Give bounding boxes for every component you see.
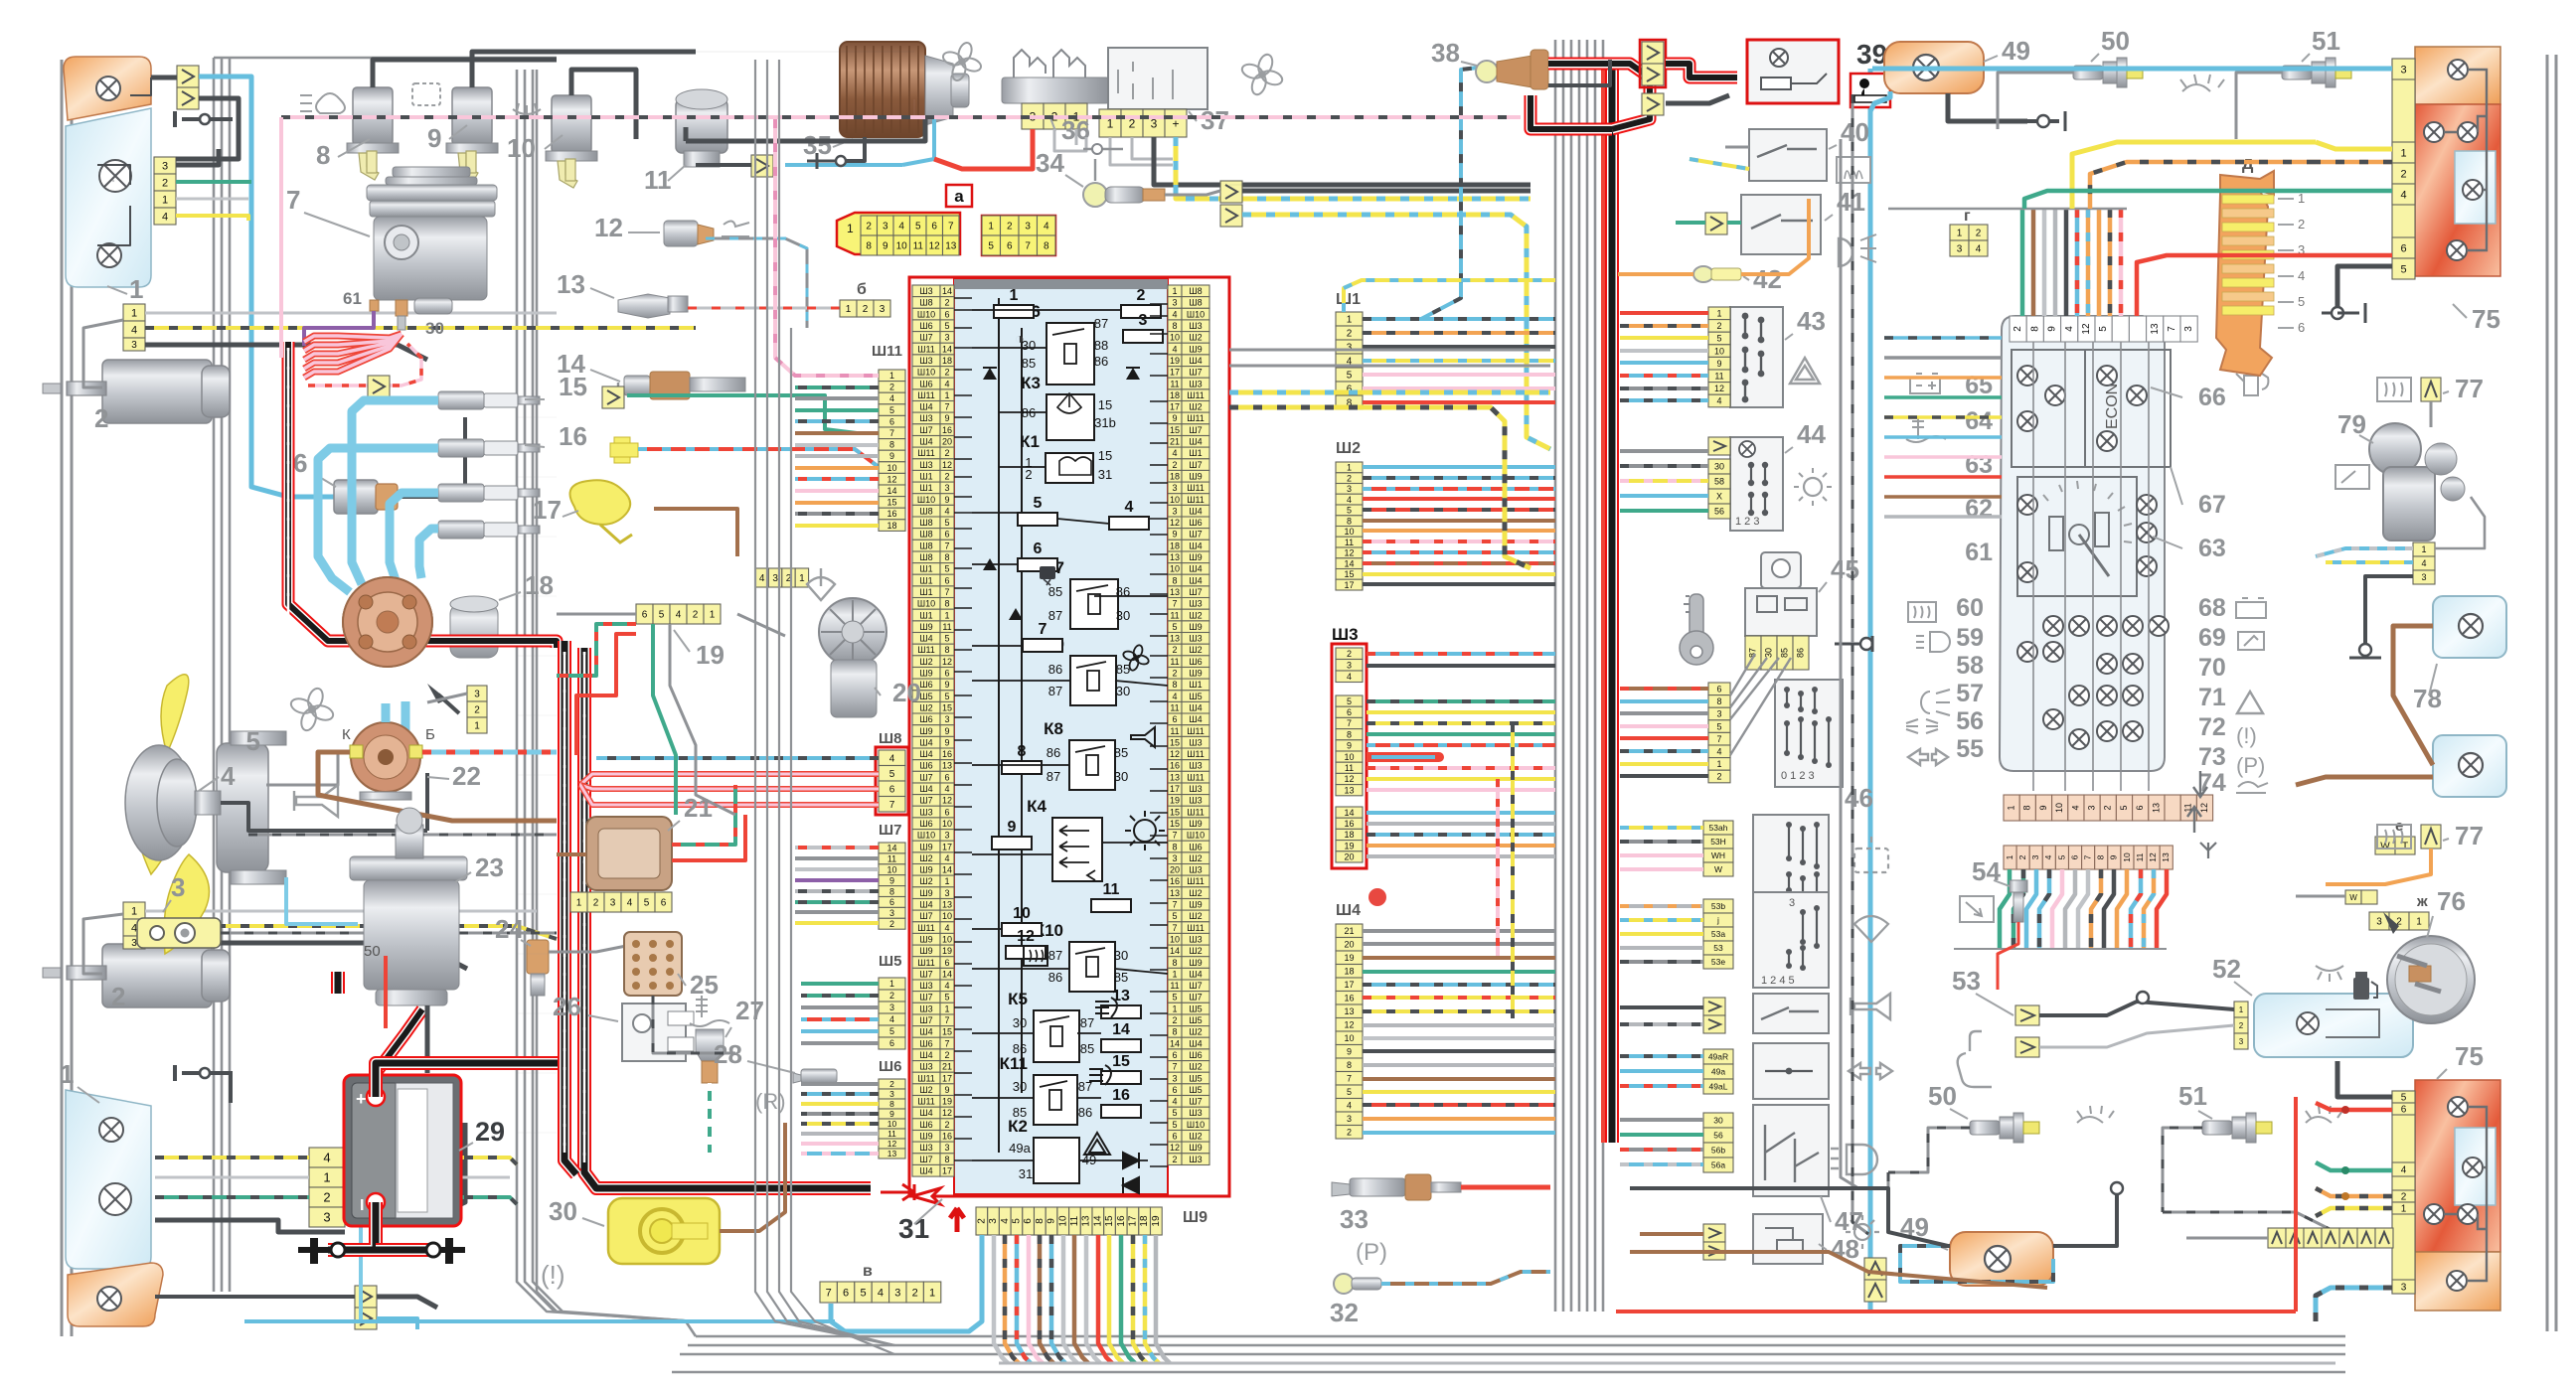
svg-text:3: 3 bbox=[944, 1143, 949, 1153]
svg-text:59: 59 bbox=[1956, 624, 1984, 652]
svg-text:15: 15 bbox=[1170, 737, 1180, 747]
svg-text:13: 13 bbox=[1344, 785, 1354, 795]
svg-text:1: 1 bbox=[2401, 1204, 2407, 1215]
svg-text:8: 8 bbox=[944, 599, 949, 609]
svg-text:23: 23 bbox=[475, 852, 504, 882]
svg-text:16: 16 bbox=[942, 1132, 952, 1142]
svg-text:87: 87 bbox=[1048, 684, 1062, 698]
svg-text:8: 8 bbox=[889, 440, 894, 450]
svg-text:85: 85 bbox=[1114, 745, 1128, 760]
svg-text:12: 12 bbox=[1017, 928, 1035, 945]
svg-text:4: 4 bbox=[2400, 190, 2406, 202]
svg-text:3: 3 bbox=[2401, 1283, 2407, 1294]
svg-text:87: 87 bbox=[1080, 1015, 1094, 1030]
svg-text:42: 42 bbox=[1753, 264, 1782, 294]
svg-text:ECON: ECON bbox=[2104, 384, 2121, 429]
svg-text:77: 77 bbox=[2455, 374, 2484, 403]
svg-text:21: 21 bbox=[942, 1062, 952, 1072]
svg-text:51: 51 bbox=[2178, 1081, 2207, 1111]
svg-text:15: 15 bbox=[1104, 1215, 1115, 1227]
svg-text:Ш9: Ш9 bbox=[919, 842, 932, 851]
svg-text:13: 13 bbox=[557, 269, 585, 299]
svg-text:1: 1 bbox=[1347, 315, 1353, 326]
svg-text:30: 30 bbox=[1013, 1079, 1027, 1094]
svg-text:52: 52 bbox=[2212, 954, 2241, 984]
svg-text:Ш4: Ш4 bbox=[919, 749, 932, 759]
svg-text:Ш7: Ш7 bbox=[919, 1015, 932, 1025]
svg-text:Ш3: Ш3 bbox=[1189, 761, 1202, 771]
svg-text:6: 6 bbox=[944, 309, 949, 319]
svg-text:18: 18 bbox=[1139, 1215, 1150, 1227]
svg-text:Ш7: Ш7 bbox=[919, 333, 932, 343]
svg-text:Ш9: Ш9 bbox=[1189, 552, 1202, 562]
svg-text:6: 6 bbox=[944, 575, 949, 585]
svg-text:1: 1 bbox=[474, 721, 480, 732]
svg-text:85: 85 bbox=[1779, 648, 1789, 658]
svg-text:9: 9 bbox=[1008, 819, 1017, 836]
svg-text:5: 5 bbox=[1172, 1108, 1177, 1118]
svg-text:53e: 53e bbox=[1711, 957, 1725, 967]
svg-text:Ш3: Ш3 bbox=[919, 807, 932, 817]
svg-text:Ш6: Ш6 bbox=[1189, 1050, 1202, 1060]
svg-text:2: 2 bbox=[889, 991, 894, 1001]
svg-text:1: 1 bbox=[944, 390, 949, 400]
svg-text:5: 5 bbox=[1716, 334, 1721, 344]
svg-text:16: 16 bbox=[559, 421, 587, 451]
svg-text:WH: WH bbox=[1711, 850, 1725, 860]
svg-text:2: 2 bbox=[1716, 321, 1721, 331]
svg-text:4: 4 bbox=[1347, 1101, 1352, 1111]
svg-text:13: 13 bbox=[887, 1149, 897, 1158]
svg-text:30: 30 bbox=[425, 319, 444, 338]
svg-text:8: 8 bbox=[1347, 516, 1352, 526]
svg-text:22: 22 bbox=[452, 761, 481, 791]
svg-text:7: 7 bbox=[1172, 599, 1177, 609]
svg-text:3: 3 bbox=[2421, 572, 2426, 582]
svg-text:10: 10 bbox=[1344, 527, 1354, 537]
svg-text:Ш2: Ш2 bbox=[919, 876, 932, 886]
svg-text:(P): (P) bbox=[2236, 753, 2265, 778]
svg-text:1: 1 bbox=[988, 222, 994, 232]
svg-text:Ш3: Ш3 bbox=[919, 460, 932, 470]
svg-text:3: 3 bbox=[1172, 853, 1177, 863]
svg-text:85: 85 bbox=[1116, 662, 1130, 677]
svg-text:К8: К8 bbox=[1044, 719, 1063, 738]
svg-text:0 1 2 3: 0 1 2 3 bbox=[1781, 770, 1815, 782]
svg-text:Ш9: Ш9 bbox=[919, 622, 932, 632]
svg-text:30: 30 bbox=[1116, 684, 1130, 698]
svg-text:51: 51 bbox=[2312, 26, 2340, 56]
svg-text:32: 32 bbox=[1330, 1298, 1359, 1327]
svg-text:Ш3: Ш3 bbox=[1189, 935, 1202, 945]
svg-text:Ш1: Ш1 bbox=[919, 483, 932, 493]
svg-text:Ш11: Ш11 bbox=[1187, 923, 1205, 933]
svg-text:14: 14 bbox=[1112, 1021, 1130, 1038]
svg-text:86: 86 bbox=[1795, 648, 1805, 658]
svg-text:11: 11 bbox=[942, 622, 951, 632]
svg-text:60: 60 bbox=[1956, 594, 1984, 622]
svg-text:1: 1 bbox=[889, 371, 894, 381]
svg-text:9: 9 bbox=[427, 123, 441, 153]
svg-text:12: 12 bbox=[886, 474, 896, 484]
svg-text:17: 17 bbox=[1170, 368, 1180, 378]
svg-text:Ш11: Ш11 bbox=[917, 923, 935, 933]
svg-text:19: 19 bbox=[1151, 1215, 1162, 1227]
svg-text:4: 4 bbox=[2070, 805, 2080, 810]
svg-text:21: 21 bbox=[1170, 437, 1180, 447]
svg-text:56a: 56a bbox=[1711, 1160, 1725, 1170]
svg-text:3: 3 bbox=[1957, 244, 1963, 255]
svg-text:16: 16 bbox=[942, 749, 952, 759]
svg-text:87: 87 bbox=[1048, 608, 1062, 623]
svg-text:8: 8 bbox=[2022, 805, 2032, 810]
svg-text:13: 13 bbox=[942, 761, 952, 771]
svg-text:Ш4: Ш4 bbox=[1189, 564, 1202, 574]
svg-text:8: 8 bbox=[316, 140, 330, 170]
svg-text:11: 11 bbox=[1170, 981, 1179, 991]
svg-text:56b: 56b bbox=[1711, 1146, 1725, 1156]
svg-text:3: 3 bbox=[131, 340, 137, 351]
svg-text:11: 11 bbox=[1345, 538, 1354, 547]
svg-text:6: 6 bbox=[889, 897, 894, 907]
svg-text:4: 4 bbox=[1716, 747, 1721, 757]
svg-text:11: 11 bbox=[1170, 379, 1179, 388]
svg-text:5: 5 bbox=[944, 518, 949, 528]
svg-text:Ш3: Ш3 bbox=[1189, 321, 1202, 331]
svg-text:Ш8: Ш8 bbox=[919, 552, 932, 562]
svg-text:53H: 53H bbox=[1710, 837, 1726, 847]
svg-text:6: 6 bbox=[1034, 540, 1043, 557]
svg-text:Ш4: Ш4 bbox=[919, 737, 932, 747]
svg-text:Ш2: Ш2 bbox=[919, 853, 932, 863]
svg-text:◑: ◑ bbox=[1015, 331, 1025, 348]
svg-text:3: 3 bbox=[2030, 854, 2040, 859]
svg-text:3: 3 bbox=[2376, 917, 2382, 928]
svg-text:9: 9 bbox=[883, 241, 888, 252]
svg-text:Ш10: Ш10 bbox=[1187, 831, 1205, 841]
svg-text:12: 12 bbox=[1170, 1143, 1180, 1153]
svg-text:Ш7: Ш7 bbox=[919, 772, 932, 782]
svg-text:11: 11 bbox=[1345, 763, 1354, 773]
svg-text:Ш6: Ш6 bbox=[919, 1120, 932, 1130]
svg-text:Ш3: Ш3 bbox=[1189, 1108, 1202, 1118]
svg-text:69: 69 bbox=[2198, 624, 2226, 652]
svg-text:18: 18 bbox=[1344, 830, 1354, 840]
svg-text:6: 6 bbox=[944, 669, 949, 679]
svg-text:5: 5 bbox=[915, 222, 921, 232]
svg-text:13: 13 bbox=[1170, 587, 1180, 597]
svg-text:14: 14 bbox=[942, 286, 952, 296]
svg-text:б: б bbox=[857, 281, 867, 298]
svg-text:4: 4 bbox=[676, 610, 682, 621]
svg-text:1: 1 bbox=[162, 195, 168, 207]
svg-text:Ш7: Ш7 bbox=[1189, 368, 1202, 378]
svg-text:85: 85 bbox=[1114, 970, 1128, 985]
svg-text:3: 3 bbox=[162, 161, 168, 173]
svg-text:7: 7 bbox=[286, 185, 300, 215]
svg-text:Ш3: Ш3 bbox=[919, 1003, 932, 1013]
svg-text:1: 1 bbox=[710, 610, 716, 621]
svg-text:15: 15 bbox=[886, 498, 896, 508]
svg-text:7: 7 bbox=[944, 402, 949, 412]
svg-text:16: 16 bbox=[1112, 1087, 1130, 1104]
svg-text:Ш11: Ш11 bbox=[872, 343, 902, 360]
svg-text:88: 88 bbox=[1094, 338, 1108, 353]
svg-text:Ш5: Ш5 bbox=[1189, 1015, 1202, 1025]
svg-text:8: 8 bbox=[1172, 680, 1177, 690]
svg-text:1: 1 bbox=[576, 898, 582, 909]
svg-text:2: 2 bbox=[323, 1190, 330, 1205]
svg-text:1: 1 bbox=[2005, 854, 2014, 859]
svg-text:6: 6 bbox=[1007, 241, 1013, 252]
svg-text:4: 4 bbox=[627, 898, 633, 909]
svg-text:5: 5 bbox=[1172, 622, 1177, 632]
svg-text:75: 75 bbox=[2455, 1041, 2484, 1071]
svg-text:1: 1 bbox=[799, 573, 805, 584]
svg-text:2: 2 bbox=[1137, 287, 1146, 304]
svg-text:9: 9 bbox=[944, 1085, 949, 1095]
svg-text:Ш8: Ш8 bbox=[919, 530, 932, 540]
svg-text:7: 7 bbox=[1025, 241, 1031, 252]
svg-text:Ш3: Ш3 bbox=[1189, 1155, 1202, 1164]
svg-text:18: 18 bbox=[942, 356, 952, 366]
svg-text:Ш9: Ш9 bbox=[919, 1132, 932, 1142]
svg-text:19: 19 bbox=[1344, 841, 1354, 850]
svg-text:64: 64 bbox=[1965, 407, 1993, 435]
svg-text:2: 2 bbox=[2400, 169, 2406, 181]
svg-text:49aL: 49aL bbox=[1709, 1082, 1728, 1092]
svg-text:18: 18 bbox=[1170, 540, 1180, 550]
svg-text:16: 16 bbox=[942, 425, 952, 435]
svg-text:2: 2 bbox=[944, 1050, 949, 1060]
svg-text:Ш11: Ш11 bbox=[1187, 807, 1205, 817]
svg-text:Ш3: Ш3 bbox=[1189, 796, 1202, 806]
svg-text:6: 6 bbox=[889, 416, 894, 426]
svg-text:Ш11: Ш11 bbox=[917, 390, 935, 400]
svg-text:Ш4: Ш4 bbox=[919, 784, 932, 794]
svg-text:85: 85 bbox=[1022, 356, 1036, 371]
svg-text:Ш9: Ш9 bbox=[919, 888, 932, 898]
svg-text:15: 15 bbox=[559, 372, 587, 401]
svg-text:Ш11: Ш11 bbox=[1187, 876, 1205, 886]
svg-text:6: 6 bbox=[1347, 707, 1352, 717]
svg-text:4: 4 bbox=[878, 1288, 884, 1300]
svg-text:7: 7 bbox=[1347, 718, 1352, 728]
svg-text:14: 14 bbox=[886, 486, 896, 496]
svg-text:67: 67 bbox=[2198, 491, 2226, 519]
svg-text:Ш9: Ш9 bbox=[1183, 1209, 1207, 1226]
svg-text:Ш7: Ш7 bbox=[1189, 993, 1202, 1003]
svg-text:10: 10 bbox=[1170, 495, 1180, 505]
svg-text:72: 72 bbox=[2198, 713, 2226, 741]
svg-text:11: 11 bbox=[913, 241, 924, 252]
svg-text:13: 13 bbox=[1081, 1215, 1092, 1227]
svg-text:Ш2: Ш2 bbox=[1189, 888, 1202, 898]
svg-text:7: 7 bbox=[826, 1288, 832, 1300]
svg-text:13: 13 bbox=[945, 241, 957, 252]
svg-text:9: 9 bbox=[944, 413, 949, 423]
svg-text:49a: 49a bbox=[1711, 1067, 1725, 1077]
svg-text:3: 3 bbox=[1172, 1073, 1177, 1083]
svg-text:25: 25 bbox=[690, 970, 719, 1000]
svg-text:Ш4: Ш4 bbox=[1189, 437, 1202, 447]
svg-text:6: 6 bbox=[931, 222, 937, 232]
svg-text:2: 2 bbox=[94, 403, 108, 433]
svg-text:26: 26 bbox=[553, 992, 581, 1021]
svg-text:4: 4 bbox=[1716, 396, 1721, 406]
svg-text:2: 2 bbox=[162, 178, 168, 190]
svg-text:10: 10 bbox=[942, 911, 952, 921]
svg-text:11: 11 bbox=[887, 854, 896, 864]
svg-text:Ш11: Ш11 bbox=[1187, 413, 1205, 423]
svg-text:2: 2 bbox=[944, 298, 949, 308]
svg-text:58: 58 bbox=[1714, 477, 1724, 487]
svg-text:Ш6: Ш6 bbox=[919, 761, 932, 771]
svg-text:1: 1 bbox=[1716, 759, 1721, 769]
svg-text:2: 2 bbox=[863, 304, 869, 315]
svg-text:а: а bbox=[954, 187, 964, 206]
svg-text:30: 30 bbox=[1114, 769, 1128, 784]
svg-text:8: 8 bbox=[944, 1155, 949, 1164]
svg-text:4: 4 bbox=[1172, 1097, 1177, 1107]
svg-text:7: 7 bbox=[944, 587, 949, 597]
svg-text:1: 1 bbox=[846, 304, 852, 315]
svg-text:6: 6 bbox=[1023, 1218, 1034, 1224]
svg-text:12: 12 bbox=[1170, 749, 1180, 759]
svg-text:Ш6: Ш6 bbox=[919, 1038, 932, 1048]
svg-text:Ш5: Ш5 bbox=[919, 692, 932, 701]
svg-text:6: 6 bbox=[661, 898, 667, 909]
svg-text:2: 2 bbox=[1172, 1015, 1177, 1025]
svg-text:4: 4 bbox=[2421, 558, 2426, 568]
svg-text:Ш6: Ш6 bbox=[919, 321, 932, 331]
svg-text:Ш3: Ш3 bbox=[1189, 865, 1202, 875]
svg-text:30: 30 bbox=[1763, 648, 1773, 658]
svg-text:10: 10 bbox=[1170, 935, 1180, 945]
svg-text:Ш11: Ш11 bbox=[917, 1073, 935, 1083]
svg-text:Ш11: Ш11 bbox=[917, 344, 935, 354]
svg-text:5: 5 bbox=[1347, 506, 1352, 516]
svg-text:Ш3: Ш3 bbox=[1189, 737, 1202, 747]
svg-text:8: 8 bbox=[1172, 321, 1177, 331]
svg-text:10: 10 bbox=[896, 241, 908, 252]
svg-text:Ш11: Ш11 bbox=[917, 1097, 935, 1107]
svg-text:2: 2 bbox=[2239, 1021, 2244, 1030]
svg-text:К11: К11 bbox=[1000, 1054, 1028, 1073]
svg-text:86: 86 bbox=[1078, 1105, 1092, 1120]
svg-text:3: 3 bbox=[1347, 484, 1352, 494]
svg-text:4: 4 bbox=[759, 573, 765, 584]
svg-text:j: j bbox=[1716, 915, 1719, 925]
svg-text:12: 12 bbox=[1170, 518, 1180, 528]
svg-text:40: 40 bbox=[1841, 117, 1869, 147]
svg-text:9: 9 bbox=[944, 737, 949, 747]
svg-text:17: 17 bbox=[942, 1166, 952, 1176]
svg-text:4: 4 bbox=[2064, 326, 2075, 332]
svg-text:10: 10 bbox=[942, 819, 952, 829]
svg-text:Ш3: Ш3 bbox=[919, 1062, 932, 1072]
svg-text:17: 17 bbox=[1128, 1215, 1139, 1227]
svg-text:86: 86 bbox=[1022, 405, 1036, 420]
svg-text:18: 18 bbox=[886, 521, 896, 531]
svg-text:58: 58 bbox=[1956, 652, 1984, 680]
svg-text:87: 87 bbox=[1094, 316, 1108, 331]
svg-text:К: К bbox=[342, 726, 351, 743]
svg-text:4: 4 bbox=[221, 761, 236, 791]
svg-text:6: 6 bbox=[2298, 320, 2305, 335]
svg-text:19: 19 bbox=[1170, 356, 1180, 366]
svg-text:Ш11: Ш11 bbox=[1187, 749, 1205, 759]
svg-text:1: 1 bbox=[2006, 805, 2015, 810]
svg-text:Ш1: Ш1 bbox=[1336, 291, 1361, 308]
svg-text:(!): (!) bbox=[2236, 723, 2257, 748]
svg-text:3: 3 bbox=[944, 714, 949, 724]
svg-text:66: 66 bbox=[2198, 384, 2226, 411]
svg-text:5: 5 bbox=[860, 1288, 866, 1300]
svg-text:2: 2 bbox=[1007, 222, 1013, 232]
svg-text:Ш4: Ш4 bbox=[919, 437, 932, 447]
svg-text:5: 5 bbox=[644, 898, 650, 909]
svg-text:3: 3 bbox=[894, 1288, 900, 1300]
svg-text:4: 4 bbox=[1172, 692, 1177, 701]
svg-text:2: 2 bbox=[2103, 805, 2113, 810]
svg-text:2: 2 bbox=[693, 610, 699, 621]
svg-text:11: 11 bbox=[887, 1129, 896, 1139]
svg-text:3: 3 bbox=[2183, 326, 2194, 332]
svg-text:49: 49 bbox=[2002, 36, 2030, 66]
svg-text:2: 2 bbox=[1347, 1128, 1352, 1138]
svg-text:3: 3 bbox=[889, 908, 894, 918]
svg-text:2: 2 bbox=[889, 1079, 894, 1089]
svg-text:6: 6 bbox=[1172, 1132, 1177, 1142]
svg-text:7: 7 bbox=[1716, 734, 1721, 744]
svg-text:9: 9 bbox=[944, 726, 949, 736]
svg-text:Ш1: Ш1 bbox=[1189, 680, 1202, 690]
svg-text:Ш10: Ш10 bbox=[917, 309, 935, 319]
svg-text:6: 6 bbox=[2069, 854, 2079, 859]
svg-text:34: 34 bbox=[1036, 148, 1064, 178]
svg-text:5: 5 bbox=[944, 993, 949, 1003]
svg-text:3: 3 bbox=[610, 898, 616, 909]
svg-text:17: 17 bbox=[1344, 980, 1354, 990]
svg-text:3: 3 bbox=[880, 304, 885, 315]
svg-text:5: 5 bbox=[2401, 1093, 2407, 1104]
svg-text:13: 13 bbox=[1170, 552, 1180, 562]
svg-text:68: 68 bbox=[2198, 594, 2226, 622]
svg-text:5: 5 bbox=[2056, 854, 2066, 859]
svg-text:9: 9 bbox=[889, 875, 894, 885]
svg-text:2: 2 bbox=[474, 705, 480, 716]
svg-text:5: 5 bbox=[1347, 696, 1352, 706]
svg-text:18: 18 bbox=[1344, 967, 1354, 977]
svg-text:3: 3 bbox=[889, 1089, 894, 1099]
svg-text:4: 4 bbox=[944, 379, 949, 388]
svg-text:8: 8 bbox=[1347, 729, 1352, 739]
svg-text:Ш3: Ш3 bbox=[1189, 599, 1202, 609]
svg-text:78: 78 bbox=[2413, 684, 2442, 713]
svg-text:Ш10: Ш10 bbox=[917, 368, 935, 378]
svg-text:11: 11 bbox=[1170, 703, 1179, 713]
svg-text:12: 12 bbox=[942, 1108, 952, 1118]
svg-text:Ш11: Ш11 bbox=[917, 448, 935, 458]
svg-text:17: 17 bbox=[1344, 580, 1354, 590]
svg-text:Ш11: Ш11 bbox=[917, 645, 935, 655]
svg-text:ж: ж bbox=[2416, 893, 2428, 910]
svg-text:1: 1 bbox=[2239, 1005, 2244, 1014]
svg-text:53: 53 bbox=[1713, 943, 1723, 953]
svg-text:1: 1 bbox=[1347, 463, 1352, 473]
svg-text:8: 8 bbox=[944, 645, 949, 655]
